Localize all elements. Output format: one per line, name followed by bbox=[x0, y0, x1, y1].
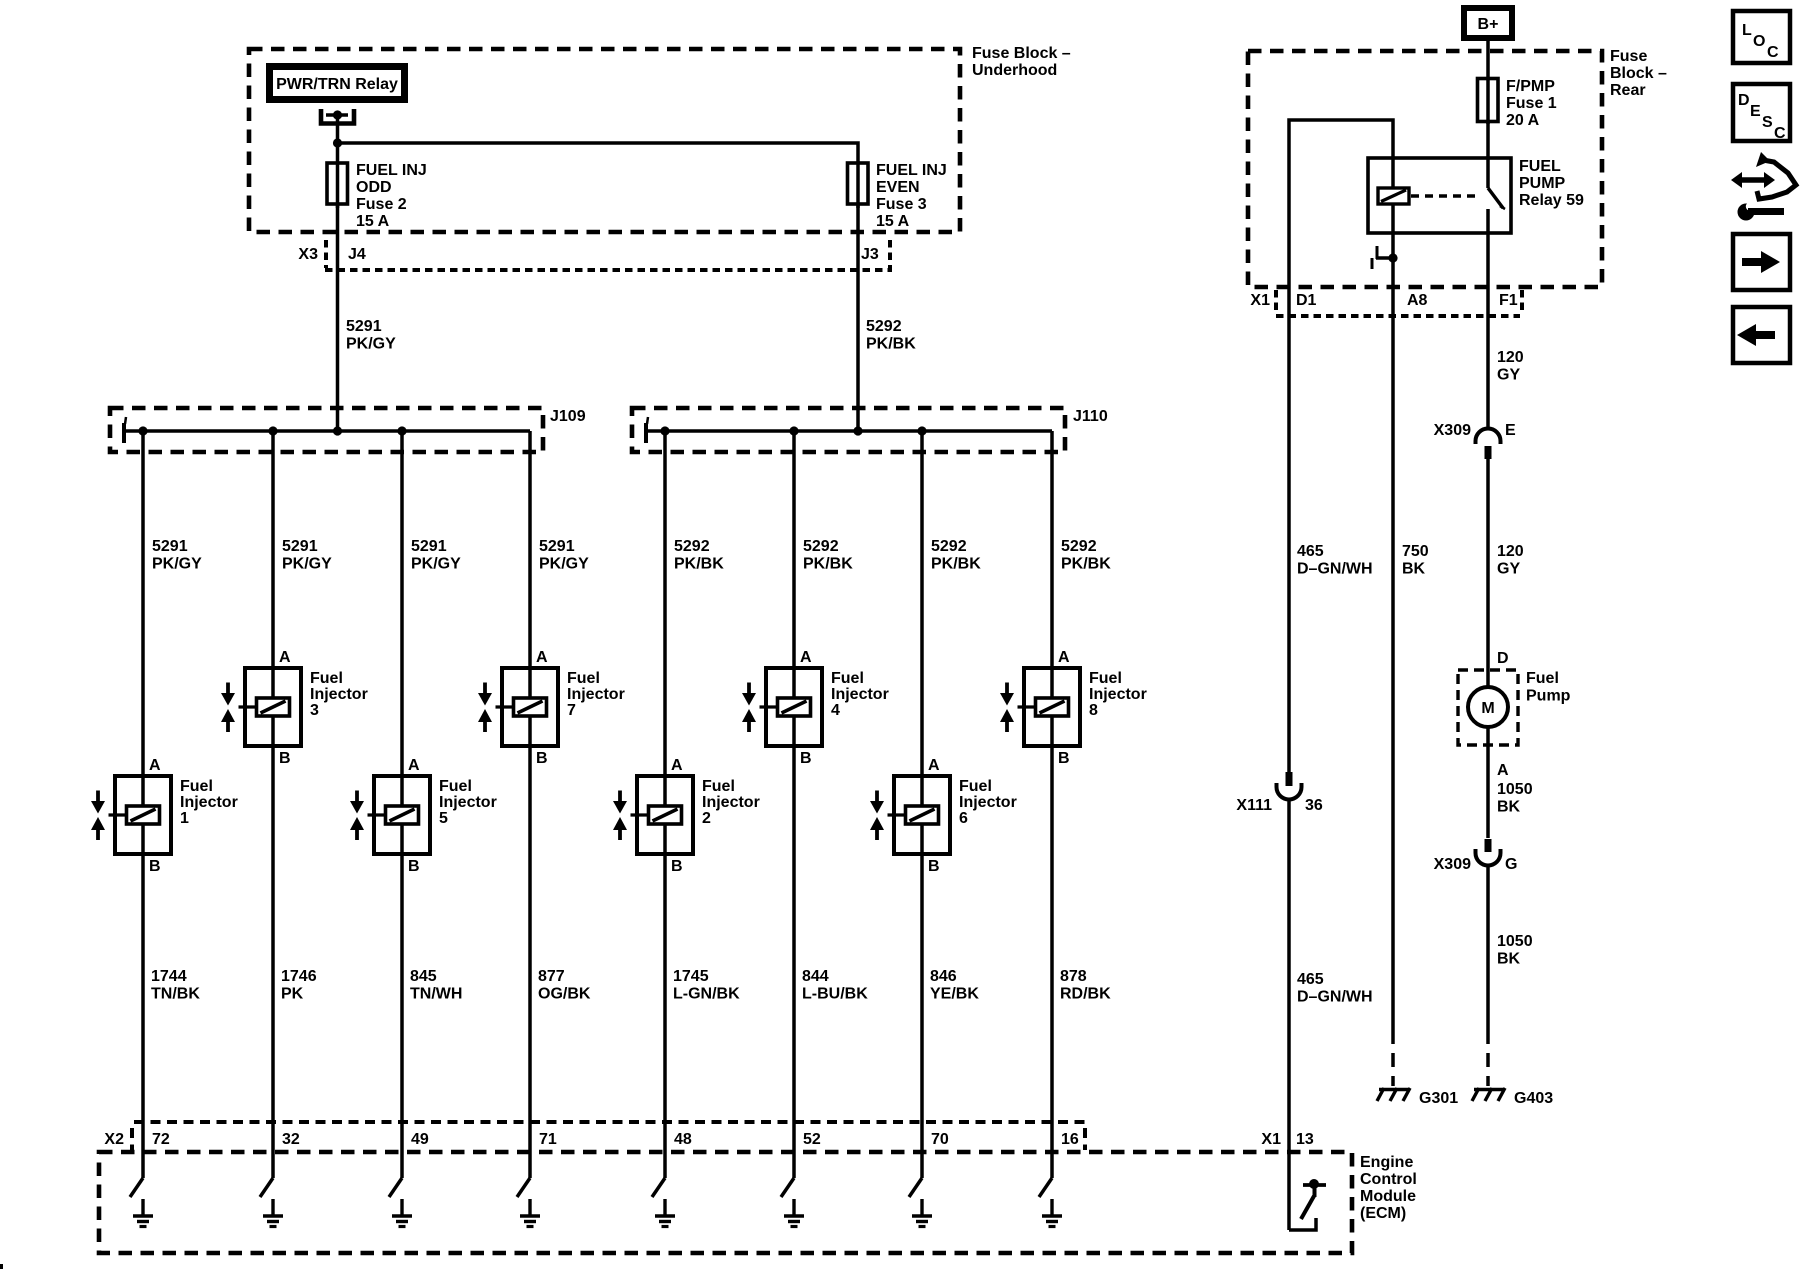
fuel injector 7 bbox=[478, 668, 558, 746]
svg-text:Injector: Injector bbox=[702, 794, 760, 811]
wire label 5291 PK/GY bbox=[539, 538, 589, 573]
svg-text:E: E bbox=[1750, 103, 1761, 120]
bus wire J110 bbox=[646, 417, 1052, 443]
svg-text:Control: Control bbox=[1360, 1171, 1417, 1188]
pin B injector 4 bbox=[800, 750, 812, 767]
wire label 1744 TN/BK bbox=[151, 968, 200, 1003]
label Fuel Injector 7 bbox=[567, 670, 625, 719]
pin 32 ECM bbox=[282, 1131, 300, 1148]
svg-text:1: 1 bbox=[180, 810, 189, 827]
wire label 1746 PK bbox=[281, 968, 317, 1003]
svg-text:Underhood: Underhood bbox=[972, 62, 1057, 79]
svg-text:PK/GY: PK/GY bbox=[346, 336, 396, 353]
svg-text:4: 4 bbox=[831, 702, 840, 719]
svg-text:Fuse 1: Fuse 1 bbox=[1506, 95, 1557, 112]
svg-text:X3: X3 bbox=[298, 246, 318, 263]
ECM driver blade pin 72 bbox=[130, 1178, 143, 1197]
svg-text:Fuel: Fuel bbox=[1526, 670, 1559, 687]
svg-text:845: 845 bbox=[410, 968, 437, 985]
pin 13 X1 ECM bbox=[1261, 1131, 1313, 1148]
label Fuel Injector 1 bbox=[180, 778, 238, 827]
wire 465 D-GN/WH D1 to X111 bbox=[1289, 316, 1373, 772]
svg-text:465: 465 bbox=[1297, 543, 1324, 560]
node splice dot J109 x273 bbox=[268, 426, 277, 435]
pin 48 ECM bbox=[674, 1131, 692, 1148]
svg-text:D–GN/WH: D–GN/WH bbox=[1297, 989, 1373, 1006]
ground symbol pin 16 bbox=[1042, 1199, 1062, 1227]
wire coil to A8 pin bbox=[1391, 204, 1395, 316]
ECM driver blade pin 70 bbox=[909, 1178, 922, 1197]
wire injector circuit 1744 TN/BK bbox=[141, 431, 145, 1178]
ECM driver blade pin 49 bbox=[389, 1178, 402, 1197]
node feed dot J109 bbox=[333, 426, 342, 435]
ECM dashed box bbox=[99, 1152, 1352, 1253]
ground symbol pin 52 bbox=[784, 1199, 804, 1227]
svg-text:70: 70 bbox=[931, 1131, 949, 1148]
svg-text:13: 13 bbox=[1296, 1131, 1314, 1148]
svg-text:TN/BK: TN/BK bbox=[151, 986, 200, 1003]
wire injector circuit 878 RD/BK bbox=[1050, 431, 1054, 1178]
ground symbol pin 72 bbox=[133, 1199, 153, 1227]
wire label 5292 PK/BK bbox=[931, 538, 981, 573]
svg-text:5: 5 bbox=[439, 810, 448, 827]
ECM driver blade pin 16 bbox=[1039, 1178, 1052, 1197]
pin A injector 5 bbox=[408, 757, 420, 774]
relay K59 FUEL PUMP Relay box bbox=[1368, 158, 1584, 233]
node splice dot J110 x794 bbox=[789, 426, 798, 435]
svg-text:20 A: 20 A bbox=[1506, 112, 1540, 129]
icon back arrow box bbox=[1733, 307, 1790, 363]
relay K1 PWR/TRN Relay box bbox=[270, 67, 405, 100]
ECM driver blade pin 71 bbox=[517, 1178, 530, 1197]
svg-text:PK/BK: PK/BK bbox=[931, 556, 981, 573]
svg-text:8: 8 bbox=[1089, 702, 1098, 719]
node splice dot J109 x143 bbox=[138, 426, 147, 435]
svg-text:5291: 5291 bbox=[152, 538, 188, 555]
fuel pump dashed box bbox=[1458, 670, 1571, 745]
label Fuel Injector 3 bbox=[310, 670, 368, 719]
wire 1050 BK X309 G to G403 bbox=[1488, 864, 1533, 1086]
pin B injector 2 bbox=[671, 858, 683, 875]
battery feed B+ box bbox=[1464, 8, 1512, 38]
node splice dot J110 x922 bbox=[917, 426, 926, 435]
connector strip X3 J4 J3 bbox=[298, 240, 892, 270]
wire 1050 BK pump A to X309 G bbox=[1488, 727, 1533, 838]
svg-text:B+: B+ bbox=[1478, 16, 1499, 33]
svg-text:Pump: Pump bbox=[1526, 688, 1571, 705]
svg-text:FUEL: FUEL bbox=[1519, 158, 1561, 175]
svg-text:32: 32 bbox=[282, 1131, 300, 1148]
ground symbol pin 70 bbox=[912, 1199, 932, 1227]
pin 70 ECM bbox=[931, 1131, 949, 1148]
svg-text:L: L bbox=[1742, 22, 1752, 39]
svg-text:X111: X111 bbox=[1236, 797, 1272, 814]
svg-text:Block –: Block – bbox=[1610, 65, 1667, 82]
svg-text:Fuse: Fuse bbox=[1610, 48, 1647, 65]
wire 5291 PK/GY fuse2 to J109 bbox=[338, 204, 397, 431]
svg-text:7: 7 bbox=[567, 702, 576, 719]
relay K59 coil bbox=[1378, 188, 1409, 204]
fuel injector 8 bbox=[1000, 668, 1080, 746]
svg-text:S: S bbox=[1762, 114, 1773, 131]
svg-text:(ECM): (ECM) bbox=[1360, 1205, 1406, 1222]
node feed dot J110 bbox=[853, 426, 862, 435]
icon forward arrow box bbox=[1733, 234, 1790, 290]
svg-text:Injector: Injector bbox=[439, 794, 497, 811]
svg-text:5291: 5291 bbox=[282, 538, 318, 555]
fuse F1 F/PMP 20A bbox=[1478, 78, 1557, 129]
svg-text:PK/BK: PK/BK bbox=[674, 556, 724, 573]
fuel injector 3 bbox=[221, 668, 301, 746]
svg-text:Engine: Engine bbox=[1360, 1154, 1413, 1171]
wire relay to fuse 2 bbox=[336, 115, 340, 208]
relay K59 actuation dashed link bbox=[1411, 194, 1479, 197]
wire label 5291 PK/GY bbox=[411, 538, 461, 573]
wire label 845 TN/WH bbox=[410, 968, 462, 1003]
pin 71 ECM bbox=[539, 1131, 557, 1148]
fuse block underhood dashed box bbox=[249, 49, 960, 232]
svg-text:J4: J4 bbox=[348, 246, 366, 263]
wire relay coil feed D1 branch bbox=[1289, 120, 1393, 316]
pin 49 ECM bbox=[411, 1131, 429, 1148]
connector X309 pin E bbox=[1434, 422, 1516, 459]
svg-text:X1: X1 bbox=[1261, 1131, 1281, 1148]
svg-text:PWR/TRN Relay: PWR/TRN Relay bbox=[276, 76, 398, 93]
svg-text:52: 52 bbox=[803, 1131, 821, 1148]
wire injector circuit 877 OG/BK bbox=[528, 431, 532, 1178]
svg-text:A: A bbox=[671, 757, 683, 774]
svg-text:PK/GY: PK/GY bbox=[411, 556, 461, 573]
svg-text:B: B bbox=[1058, 750, 1070, 767]
wire 120 GY X309 to fuel pump D bbox=[1488, 459, 1524, 687]
svg-text:5292: 5292 bbox=[674, 538, 710, 555]
fuse F2 FUEL INJ ODD 15A bbox=[327, 162, 427, 230]
pin B injector 5 bbox=[408, 858, 420, 875]
svg-text:PK/BK: PK/BK bbox=[1061, 556, 1111, 573]
splice pack J110 dashed box bbox=[632, 408, 1065, 452]
relay K59 switch blade bbox=[1488, 188, 1505, 209]
svg-text:YE/BK: YE/BK bbox=[930, 986, 979, 1003]
svg-text:36: 36 bbox=[1305, 797, 1323, 814]
wire label 878 RD/BK bbox=[1060, 968, 1111, 1003]
svg-text:B: B bbox=[928, 858, 940, 875]
wire switch to F1 pin bbox=[1486, 209, 1490, 316]
node splice dot J109 x402 bbox=[397, 426, 406, 435]
wire label 5291 PK/GY bbox=[152, 538, 202, 573]
svg-text:5292: 5292 bbox=[803, 538, 839, 555]
wire injector circuit 1745 L-GN/BK bbox=[663, 431, 667, 1178]
wire label 877 OG/BK bbox=[538, 968, 591, 1003]
ground symbol pin 71 bbox=[520, 1199, 540, 1227]
pin A injector 7 bbox=[536, 649, 548, 666]
svg-text:Injector: Injector bbox=[1089, 686, 1147, 703]
pin 52 ECM bbox=[803, 1131, 821, 1148]
wire fuse1 to relay switch bbox=[1486, 122, 1490, 189]
svg-text:GY: GY bbox=[1497, 561, 1520, 578]
bus wire J109 bbox=[124, 417, 530, 443]
connector X2 dotted line bbox=[104, 1122, 1085, 1150]
svg-text:F/PMP: F/PMP bbox=[1506, 78, 1555, 95]
svg-text:A8: A8 bbox=[1407, 292, 1428, 309]
svg-text:B: B bbox=[408, 858, 420, 875]
svg-text:5291: 5291 bbox=[539, 538, 575, 555]
svg-text:Fuel: Fuel bbox=[180, 778, 213, 795]
svg-text:5291: 5291 bbox=[346, 318, 382, 335]
wire injector circuit 1746 PK bbox=[271, 431, 275, 1178]
fuel injector 5 bbox=[350, 776, 430, 854]
svg-text:120: 120 bbox=[1497, 543, 1524, 560]
svg-text:A: A bbox=[928, 757, 940, 774]
wire 120 GY F1 to X309 E bbox=[1488, 316, 1524, 430]
wire 5292 PK/BK fuse3 to J110 bbox=[858, 204, 916, 431]
svg-text:D: D bbox=[1738, 92, 1750, 109]
svg-text:Injector: Injector bbox=[959, 794, 1017, 811]
svg-text:5292: 5292 bbox=[931, 538, 967, 555]
svg-text:Fuel: Fuel bbox=[439, 778, 472, 795]
pin B injector 1 bbox=[149, 858, 161, 875]
icon wrench double arrow bbox=[1731, 152, 1796, 221]
ground G403 bbox=[1472, 1088, 1553, 1107]
svg-text:C: C bbox=[1767, 44, 1779, 61]
svg-text:EVEN: EVEN bbox=[876, 179, 920, 196]
svg-text:120: 120 bbox=[1497, 349, 1524, 366]
svg-text:L-BU/BK: L-BU/BK bbox=[802, 986, 868, 1003]
svg-text:C: C bbox=[1774, 125, 1786, 142]
svg-text:X309: X309 bbox=[1434, 422, 1471, 439]
svg-text:A: A bbox=[536, 649, 548, 666]
wire label 846 YE/BK bbox=[930, 968, 979, 1003]
svg-text:Fuel: Fuel bbox=[702, 778, 735, 795]
ground symbol pin 32 bbox=[263, 1199, 283, 1227]
svg-text:M: M bbox=[1481, 700, 1494, 717]
label Fuel Injector 2 bbox=[702, 778, 760, 827]
ECM internal switch at pin 13 bbox=[1289, 1179, 1326, 1230]
svg-text:F1: F1 bbox=[1499, 292, 1518, 309]
label J110 bbox=[1073, 408, 1108, 425]
svg-text:6: 6 bbox=[959, 810, 968, 827]
label Fuel Injector 8 bbox=[1089, 670, 1147, 719]
label Engine Control Module ECM bbox=[1360, 1154, 1417, 1222]
svg-text:A: A bbox=[408, 757, 420, 774]
svg-text:PK/BK: PK/BK bbox=[866, 336, 916, 353]
svg-text:BK: BK bbox=[1497, 799, 1521, 816]
svg-text:Fuse 2: Fuse 2 bbox=[356, 196, 407, 213]
wire injector circuit 845 TN/WH bbox=[400, 431, 404, 1178]
svg-text:PK/GY: PK/GY bbox=[539, 556, 589, 573]
svg-text:B: B bbox=[149, 858, 161, 875]
wire injector circuit 846 YE/BK bbox=[920, 431, 924, 1178]
svg-text:Fuel: Fuel bbox=[959, 778, 992, 795]
svg-text:J109: J109 bbox=[550, 408, 586, 425]
label Fuel Injector 4 bbox=[831, 670, 889, 719]
svg-text:Relay 59: Relay 59 bbox=[1519, 192, 1584, 209]
svg-text:878: 878 bbox=[1060, 968, 1087, 985]
svg-text:72: 72 bbox=[152, 1131, 170, 1148]
svg-text:B: B bbox=[279, 750, 291, 767]
svg-text:Fuel: Fuel bbox=[831, 670, 864, 687]
svg-text:750: 750 bbox=[1402, 543, 1429, 560]
svg-text:PK: PK bbox=[281, 986, 304, 1003]
svg-text:D: D bbox=[1497, 650, 1509, 667]
wire label 1745 L-GN/BK bbox=[673, 968, 740, 1003]
pin B injector 8 bbox=[1058, 750, 1070, 767]
svg-text:J3: J3 bbox=[861, 246, 879, 263]
svg-text:PUMP: PUMP bbox=[1519, 175, 1566, 192]
pin A injector 6 bbox=[928, 757, 940, 774]
svg-text:FUEL INJ: FUEL INJ bbox=[356, 162, 427, 179]
wire 750 BK A8 to G301 bbox=[1393, 316, 1429, 1086]
svg-text:Module: Module bbox=[1360, 1188, 1416, 1205]
wire label 5292 PK/BK bbox=[1061, 538, 1111, 573]
ECM driver blade pin 48 bbox=[652, 1178, 665, 1197]
svg-text:5292: 5292 bbox=[1061, 538, 1097, 555]
label pin A fuel pump bbox=[1497, 762, 1509, 779]
motor M fuel pump bbox=[1468, 687, 1508, 727]
svg-text:ODD: ODD bbox=[356, 179, 392, 196]
svg-text:X1: X1 bbox=[1250, 292, 1270, 309]
label Fuel Injector 6 bbox=[959, 778, 1017, 827]
svg-text:B: B bbox=[536, 750, 548, 767]
svg-text:Fuel: Fuel bbox=[567, 670, 600, 687]
node junction dot feed bbox=[333, 138, 342, 147]
ECM driver blade pin 52 bbox=[781, 1178, 794, 1197]
pin A injector 1 bbox=[149, 757, 161, 774]
svg-text:Injector: Injector bbox=[180, 794, 238, 811]
svg-text:1050: 1050 bbox=[1497, 933, 1533, 950]
svg-text:L-GN/BK: L-GN/BK bbox=[673, 986, 740, 1003]
fuel injector 1 bbox=[91, 776, 171, 854]
pin B injector 6 bbox=[928, 858, 940, 875]
pin A injector 2 bbox=[671, 757, 683, 774]
label J109 bbox=[550, 408, 586, 425]
svg-text:A: A bbox=[800, 649, 812, 666]
svg-text:Fuel: Fuel bbox=[310, 670, 343, 687]
svg-text:B: B bbox=[800, 750, 812, 767]
wire label 5292 PK/BK bbox=[803, 538, 853, 573]
label Fuse Block Underhood bbox=[972, 45, 1071, 79]
svg-text:877: 877 bbox=[538, 968, 565, 985]
svg-text:5291: 5291 bbox=[411, 538, 447, 555]
svg-text:PK/GY: PK/GY bbox=[282, 556, 332, 573]
label pin D fuel pump bbox=[1497, 650, 1509, 667]
svg-text:G301: G301 bbox=[1419, 1090, 1458, 1107]
svg-text:Fuel: Fuel bbox=[1089, 670, 1122, 687]
pin 16 ECM bbox=[1061, 1131, 1079, 1148]
relay output terminal bracket bbox=[321, 109, 354, 124]
page edge mark bbox=[0, 1264, 3, 1269]
svg-text:J110: J110 bbox=[1073, 408, 1108, 425]
ground G301 bbox=[1377, 1088, 1458, 1107]
wire injector circuit 844 L-BU/BK bbox=[792, 431, 796, 1178]
svg-text:TN/WH: TN/WH bbox=[410, 986, 462, 1003]
svg-text:15 A: 15 A bbox=[876, 213, 910, 230]
svg-text:71: 71 bbox=[539, 1131, 557, 1148]
svg-text:Fuse Block –: Fuse Block – bbox=[972, 45, 1071, 62]
svg-text:1745: 1745 bbox=[673, 968, 709, 985]
svg-text:E: E bbox=[1505, 422, 1516, 439]
fuse F3 FUEL INJ EVEN 15A bbox=[848, 162, 947, 230]
wire label 5292 PK/BK bbox=[674, 538, 724, 573]
svg-text:A: A bbox=[149, 757, 161, 774]
pin B injector 7 bbox=[536, 750, 548, 767]
svg-text:1744: 1744 bbox=[151, 968, 187, 985]
svg-text:2: 2 bbox=[702, 810, 711, 827]
wire 465 D-GN/WH X111 to ECM 13 bbox=[1289, 798, 1373, 1230]
wire feed to even fuse bbox=[338, 143, 859, 208]
svg-text:15 A: 15 A bbox=[356, 213, 390, 230]
svg-text:Injector: Injector bbox=[831, 686, 889, 703]
svg-text:G: G bbox=[1505, 856, 1517, 873]
svg-text:G403: G403 bbox=[1514, 1090, 1553, 1107]
svg-text:OG/BK: OG/BK bbox=[538, 986, 591, 1003]
fuel injector 6 bbox=[870, 776, 950, 854]
fuel injector 2 bbox=[613, 776, 693, 854]
label Fuel Injector 5 bbox=[439, 778, 497, 827]
svg-text:D–GN/WH: D–GN/WH bbox=[1297, 561, 1373, 578]
icon LOC box bbox=[1733, 11, 1790, 63]
svg-text:844: 844 bbox=[802, 968, 829, 985]
svg-text:A: A bbox=[1497, 762, 1509, 779]
svg-text:Rear: Rear bbox=[1610, 82, 1646, 99]
svg-text:Injector: Injector bbox=[310, 686, 368, 703]
ground symbol pin 49 bbox=[392, 1199, 412, 1227]
svg-text:D1: D1 bbox=[1296, 292, 1317, 309]
connector X111 pin 36 bbox=[1236, 772, 1323, 814]
svg-text:BK: BK bbox=[1497, 951, 1521, 968]
svg-text:BK: BK bbox=[1402, 561, 1426, 578]
svg-text:O: O bbox=[1753, 33, 1765, 50]
icon DESC box bbox=[1733, 84, 1790, 142]
connector strip X1 D1 A8 F1 bbox=[1250, 290, 1522, 316]
connector X309 pin G bbox=[1434, 839, 1518, 873]
ground symbol pin 48 bbox=[655, 1199, 675, 1227]
svg-text:Fuse 3: Fuse 3 bbox=[876, 196, 927, 213]
wire label 5291 PK/GY bbox=[282, 538, 332, 573]
svg-text:B: B bbox=[671, 858, 683, 875]
svg-text:49: 49 bbox=[411, 1131, 429, 1148]
splice pack J109 dashed box bbox=[110, 408, 543, 452]
fuel injector 4 bbox=[742, 668, 822, 746]
pin B injector 3 bbox=[279, 750, 291, 767]
svg-text:465: 465 bbox=[1297, 971, 1324, 988]
wire B+ to fuse 1 bbox=[1486, 41, 1490, 124]
ECM driver blade pin 32 bbox=[260, 1178, 273, 1197]
pin A injector 8 bbox=[1058, 649, 1070, 666]
svg-text:A: A bbox=[279, 649, 291, 666]
svg-text:FUEL INJ: FUEL INJ bbox=[876, 162, 947, 179]
node dot with clip A8 bbox=[1372, 246, 1398, 269]
svg-text:1746: 1746 bbox=[281, 968, 317, 985]
node splice dot J110 x665 bbox=[660, 426, 669, 435]
svg-text:X309: X309 bbox=[1434, 856, 1471, 873]
svg-text:A: A bbox=[1058, 649, 1070, 666]
wire label 844 L-BU/BK bbox=[802, 968, 868, 1003]
svg-text:3: 3 bbox=[310, 702, 319, 719]
svg-text:GY: GY bbox=[1497, 367, 1520, 384]
svg-text:846: 846 bbox=[930, 968, 957, 985]
svg-text:RD/BK: RD/BK bbox=[1060, 986, 1111, 1003]
svg-text:5292: 5292 bbox=[866, 318, 902, 335]
fuse block rear dashed box bbox=[1248, 51, 1602, 287]
svg-text:PK/BK: PK/BK bbox=[803, 556, 853, 573]
svg-text:48: 48 bbox=[674, 1131, 692, 1148]
label Fuse Block Rear bbox=[1610, 48, 1667, 99]
svg-text:X2: X2 bbox=[104, 1131, 124, 1148]
svg-text:1050: 1050 bbox=[1497, 781, 1533, 798]
pin 72 ECM bbox=[152, 1131, 170, 1148]
svg-text:PK/GY: PK/GY bbox=[152, 556, 202, 573]
pin A injector 3 bbox=[279, 649, 291, 666]
